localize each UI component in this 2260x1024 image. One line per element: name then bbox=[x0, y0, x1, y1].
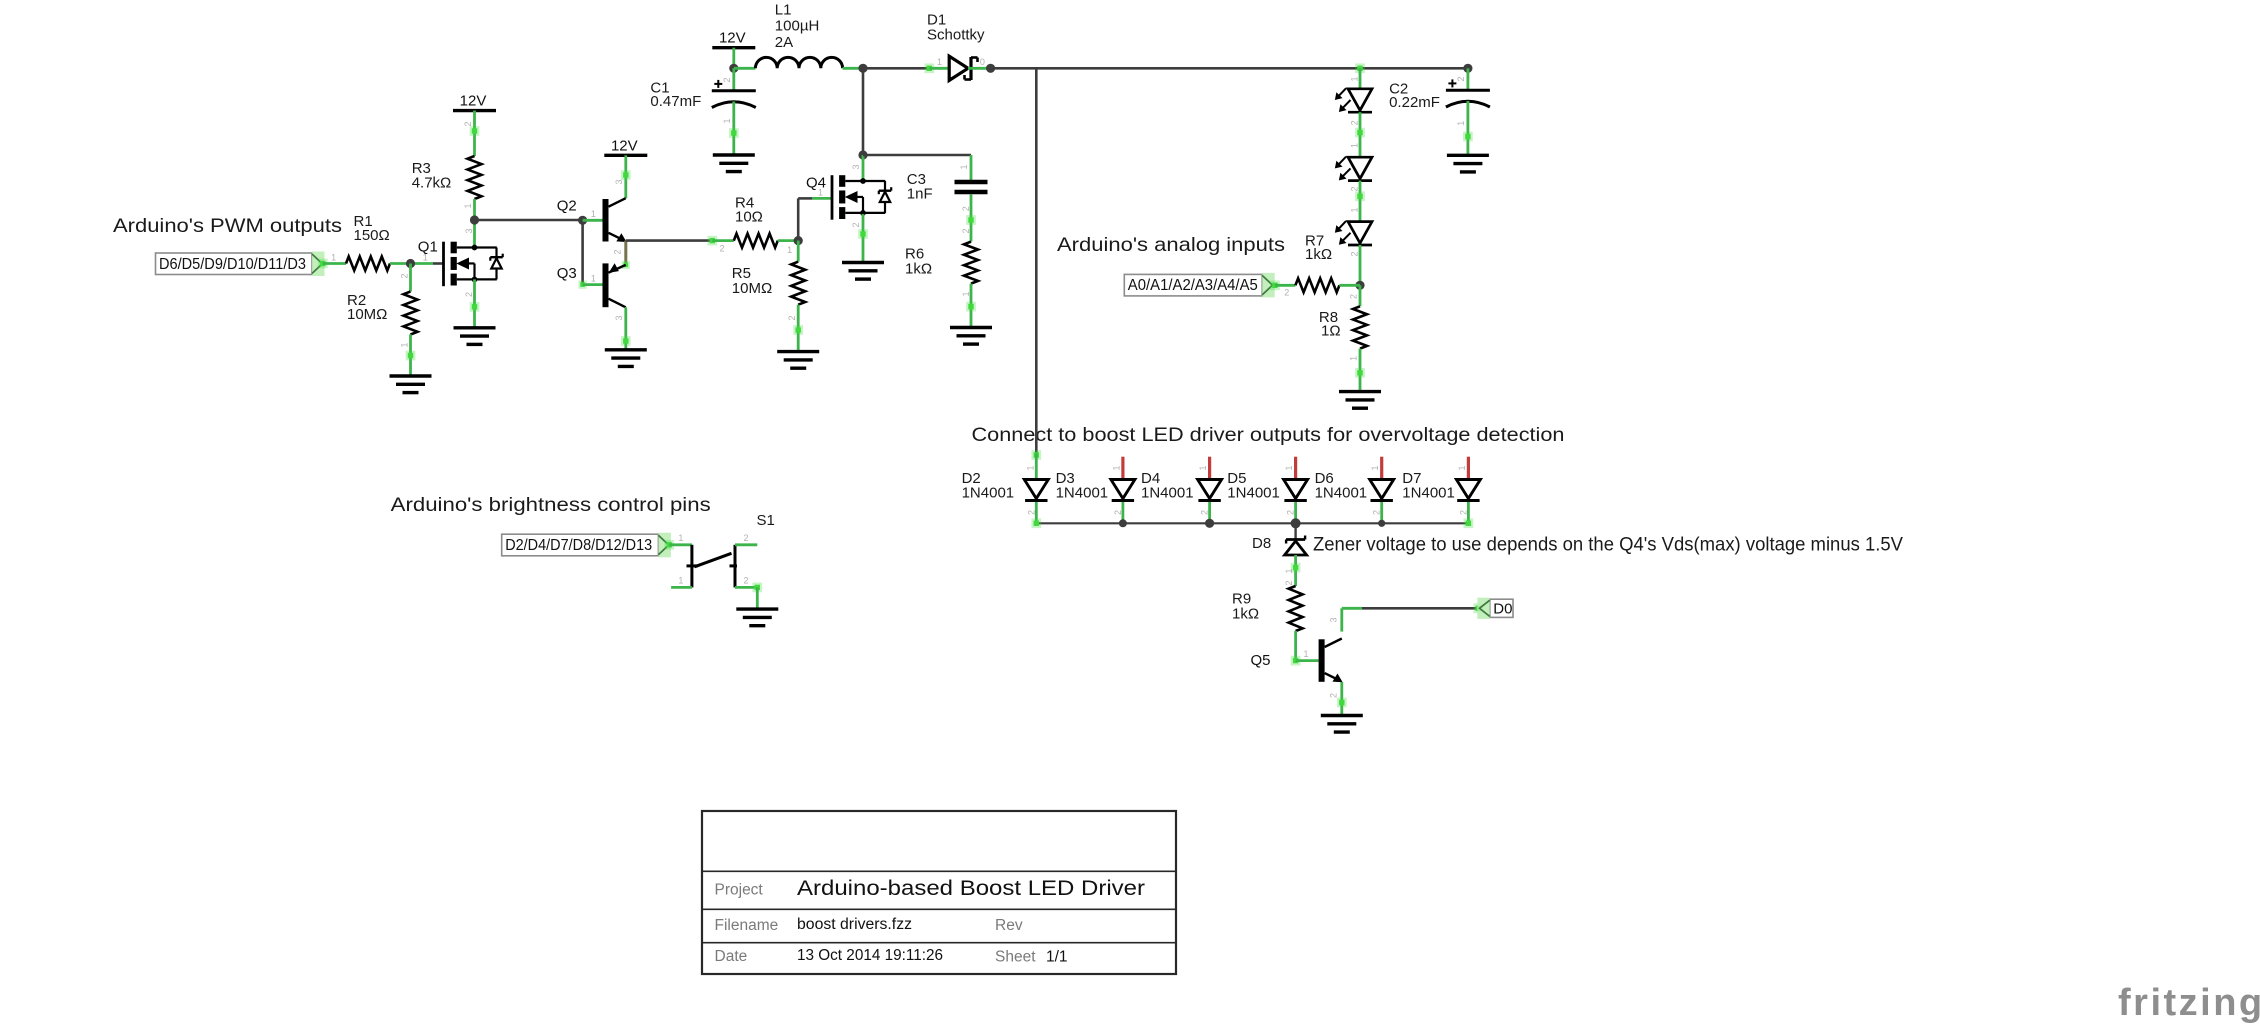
svg-text:12V: 12V bbox=[719, 30, 746, 47]
pin dot bus left corner bbox=[1031, 518, 1041, 528]
svg-text:fritzing: fritzing bbox=[2118, 982, 2260, 1024]
svg-text:Arduino's analog inputs: Arduino's analog inputs bbox=[1057, 234, 1285, 256]
stub unconnected D3 anode bbox=[1121, 457, 1124, 479]
svg-text:3: 3 bbox=[851, 164, 861, 169]
svg-text:2A: 2A bbox=[775, 34, 793, 51]
LED LED3 bbox=[1336, 221, 1373, 245]
svg-text:0.22mF: 0.22mF bbox=[1389, 94, 1440, 111]
svg-text:2: 2 bbox=[463, 121, 473, 126]
svg-text:2: 2 bbox=[1026, 510, 1036, 515]
wire R3 to drain node bbox=[473, 199, 476, 248]
pin dot LED1/LED2 bbox=[1355, 128, 1365, 138]
svg-text:1N4001: 1N4001 bbox=[1227, 485, 1280, 502]
power 12V rail main bbox=[712, 30, 755, 48]
wire base tie Q2-Q3 bbox=[581, 220, 584, 284]
transistor Q4 (n-MOSFET) bbox=[806, 175, 891, 220]
svg-text:1: 1 bbox=[1284, 465, 1294, 470]
svg-text:1: 1 bbox=[961, 291, 971, 296]
wire gate stub bbox=[433, 262, 444, 265]
node C1/L1/12V bbox=[729, 64, 738, 73]
svg-text:1kΩ: 1kΩ bbox=[1232, 606, 1259, 623]
wire D1 cathode lead bbox=[968, 67, 991, 70]
resistor R9 bbox=[1289, 586, 1303, 631]
wire 12V to R3 bbox=[473, 111, 476, 156]
pin dot emitter node bbox=[622, 261, 630, 269]
svg-text:2: 2 bbox=[1284, 288, 1289, 298]
svg-text:1: 1 bbox=[787, 245, 792, 255]
ground under Q3 bbox=[605, 350, 647, 367]
wire R7 to node bbox=[1339, 284, 1360, 287]
node D1 cathode bbox=[986, 64, 995, 73]
node Q4 drain/C3 bbox=[858, 150, 867, 159]
svg-text:1nF: 1nF bbox=[907, 186, 933, 203]
net label A0/A1/A2/A3/A4/A5 bbox=[1124, 273, 1274, 298]
pin dot bus right corner bbox=[1464, 518, 1474, 528]
wire D4 cathode to bus bbox=[1208, 502, 1211, 523]
pin dot LED chain top bbox=[1355, 63, 1365, 73]
transistor Q2 (NPN) bbox=[557, 198, 626, 242]
svg-text:Connect to boost LED driver ou: Connect to boost LED driver outputs for … bbox=[972, 424, 1565, 446]
resistor R1 bbox=[346, 257, 390, 271]
svg-text:1: 1 bbox=[1457, 465, 1467, 470]
LED LED2 bbox=[1336, 157, 1373, 181]
pin dot R8 bottom bbox=[1355, 368, 1365, 378]
svg-text:2: 2 bbox=[613, 249, 623, 254]
pin dot Q3 base bbox=[578, 280, 586, 288]
wire corner to Q5 base bbox=[1296, 659, 1319, 662]
wire bus to D8 bbox=[1294, 523, 1296, 539]
capacitor C1 bbox=[712, 80, 756, 108]
svg-text:2: 2 bbox=[961, 206, 971, 211]
pin dot LED2/LED3 bbox=[1355, 191, 1365, 201]
svg-text:2: 2 bbox=[743, 576, 748, 586]
transistor Q1 (n-MOSFET) bbox=[418, 239, 503, 287]
svg-text:3: 3 bbox=[1329, 617, 1339, 622]
wire R4 to junction bbox=[778, 239, 798, 242]
pin dot C2 bottom bbox=[1463, 132, 1473, 142]
svg-text:1N4001: 1N4001 bbox=[962, 485, 1015, 502]
svg-text:10MΩ: 10MΩ bbox=[732, 280, 772, 297]
wire R1 to Q1 gate bbox=[390, 262, 433, 265]
svg-text:D2/D4/D7/D8/D12/D13: D2/D4/D7/D8/D12/D13 bbox=[505, 537, 652, 554]
svg-text:13 Oct 2014 19:11:26: 13 Oct 2014 19:11:26 bbox=[797, 947, 943, 964]
svg-text:Project: Project bbox=[715, 882, 764, 899]
svg-text:2: 2 bbox=[1350, 251, 1360, 256]
wire C1 to ground bbox=[732, 102, 735, 156]
pin dot D8 anode bbox=[1291, 563, 1301, 573]
diode D4 (1N4001) bbox=[1198, 480, 1222, 501]
wire D7 cathode to bus bbox=[1467, 502, 1470, 523]
svg-text:1: 1 bbox=[463, 203, 473, 208]
node bus/D6 bbox=[1378, 520, 1385, 527]
wire collector lead bbox=[1342, 607, 1362, 610]
wire junction up to gate corner bbox=[797, 198, 800, 240]
resistor R5 bbox=[791, 262, 805, 305]
svg-text:2: 2 bbox=[1372, 510, 1382, 515]
net label D2/D4/D7/D8/D12/D13 bbox=[502, 533, 671, 558]
wire node to C1 bbox=[732, 68, 735, 91]
wire C3 top lead bbox=[970, 155, 973, 180]
wire Q4 source to ground bbox=[862, 214, 865, 263]
pin dot R9/Q5 corner bbox=[1291, 656, 1301, 666]
wire LED2 to LED3 bbox=[1359, 181, 1362, 222]
svg-text:4.7kΩ: 4.7kΩ bbox=[412, 175, 452, 192]
wire overvoltage bus bbox=[1036, 522, 1468, 524]
diode D6 (1N4001) bbox=[1370, 480, 1394, 501]
wire rail down to Q4 node bbox=[862, 68, 865, 155]
ground under Q1 bbox=[454, 328, 496, 345]
svg-text:Q5: Q5 bbox=[1251, 652, 1271, 669]
svg-text:2: 2 bbox=[961, 228, 971, 233]
svg-text:D6/D5/D9/D10/D11/D3: D6/D5/D9/D10/D11/D3 bbox=[159, 256, 306, 273]
svg-text:2: 2 bbox=[722, 77, 732, 82]
svg-text:Date: Date bbox=[715, 948, 748, 965]
wire gate corner horizontal bbox=[798, 197, 812, 200]
svg-text:1: 1 bbox=[1350, 76, 1360, 81]
wire junction to R2 bbox=[409, 264, 412, 292]
wire S1 to ground bbox=[756, 587, 759, 609]
svg-text:2: 2 bbox=[1284, 580, 1294, 585]
node gate/R1/R2 bbox=[406, 259, 415, 268]
svg-text:1N4001: 1N4001 bbox=[1402, 485, 1455, 502]
node R3/Q1 drain/Q2 base bbox=[470, 215, 479, 224]
wire S1 pin1 stub bbox=[671, 586, 692, 589]
wire 12V to Q2 collector bbox=[624, 155, 627, 198]
net label D6/D5/D9/D10/D11/D3 bbox=[156, 252, 325, 277]
pin dot D1 anode bbox=[924, 63, 934, 73]
wire S1 pin2 stub bbox=[735, 543, 757, 546]
svg-text:3: 3 bbox=[614, 315, 624, 320]
pin dot Q4 source bbox=[858, 229, 868, 239]
svg-text:2: 2 bbox=[1458, 510, 1468, 515]
svg-text:D8: D8 bbox=[1252, 535, 1271, 552]
node Q2 base bbox=[578, 216, 587, 225]
svg-text:L1: L1 bbox=[775, 2, 792, 19]
svg-text:D0: D0 bbox=[1493, 600, 1512, 617]
svg-text:Arduino-based Boost LED Driver: Arduino-based Boost LED Driver bbox=[797, 877, 1145, 900]
stub unconnected D7 anode bbox=[1467, 457, 1470, 479]
capacitor C2 bbox=[1446, 79, 1490, 107]
LED LED1 bbox=[1336, 88, 1373, 112]
wire Q5 emitter to ground bbox=[1340, 682, 1343, 716]
pin dot PWM label bbox=[318, 259, 328, 269]
svg-text:1: 1 bbox=[678, 576, 683, 586]
wire R4 left lead bbox=[712, 239, 734, 242]
svg-text:Filename: Filename bbox=[715, 917, 779, 934]
wire gate lead Q4 bbox=[812, 197, 832, 200]
svg-text:2: 2 bbox=[743, 533, 748, 543]
pin dot R3 top bbox=[470, 126, 480, 136]
node bus/D3 bbox=[1119, 519, 1127, 527]
resistor R2 bbox=[404, 292, 418, 335]
power 12V rail for Q2 bbox=[604, 137, 647, 155]
wire D6 cathode to bus bbox=[1380, 502, 1383, 523]
svg-text:2: 2 bbox=[464, 292, 474, 297]
wire node to R8 bbox=[1359, 285, 1362, 306]
svg-text:1: 1 bbox=[1303, 649, 1308, 659]
pin dot R4 left bbox=[707, 236, 717, 246]
svg-text:1N4001: 1N4001 bbox=[1315, 485, 1368, 502]
title block frame bbox=[702, 811, 1176, 974]
svg-text:12V: 12V bbox=[611, 137, 638, 154]
svg-text:1: 1 bbox=[1284, 568, 1294, 573]
wire R9 to Q5 base corner bbox=[1294, 631, 1297, 661]
svg-text:0: 0 bbox=[980, 57, 985, 67]
ground under R6 bbox=[950, 328, 992, 345]
wire L1 to node bbox=[843, 67, 863, 70]
wire C3 to R6 bbox=[970, 194, 973, 241]
node R4/R5/Q4 gate bbox=[794, 236, 803, 245]
wire R6 to ground bbox=[970, 284, 973, 328]
resistor R6 bbox=[964, 242, 978, 284]
svg-text:2: 2 bbox=[851, 222, 861, 227]
pin dot C1 bottom bbox=[729, 128, 739, 138]
svg-text:Sheet: Sheet bbox=[995, 949, 1036, 966]
svg-text:1: 1 bbox=[1025, 465, 1035, 470]
svg-text:Q3: Q3 bbox=[557, 265, 577, 282]
pin dot R6 bottom bbox=[966, 302, 976, 312]
stub unconnected D5 anode bbox=[1294, 457, 1297, 479]
wire node to D1 bbox=[863, 67, 929, 70]
svg-text:Rev: Rev bbox=[995, 917, 1023, 934]
wire Q1 source to ground bbox=[473, 279, 476, 327]
svg-text:150Ω: 150Ω bbox=[354, 227, 390, 244]
inductor L1 bbox=[755, 57, 842, 68]
wire drain node to Q2 base bbox=[475, 219, 583, 222]
wire D1 anode lead bbox=[929, 67, 949, 70]
svg-text:1/1: 1/1 bbox=[1046, 949, 1068, 966]
wire PWM label to R1 bbox=[323, 262, 346, 265]
svg-text:A0/A1/A2/A3/A4/A5: A0/A1/A2/A3/A4/A5 bbox=[1128, 277, 1258, 294]
ground under R8 bbox=[1339, 392, 1381, 409]
diode D1 (Schottky) bbox=[949, 56, 977, 80]
ground under R2 bbox=[390, 376, 432, 393]
wire R5 to ground bbox=[797, 305, 800, 352]
resistor R8 bbox=[1353, 306, 1367, 348]
svg-text:1: 1 bbox=[937, 57, 942, 67]
svg-text:12V: 12V bbox=[460, 93, 487, 110]
stub unconnected D4 anode bbox=[1208, 457, 1211, 479]
svg-text:Arduino's PWM outputs: Arduino's PWM outputs bbox=[113, 215, 342, 237]
wire D5 cathode to bus bbox=[1294, 502, 1297, 523]
svg-text:1: 1 bbox=[400, 342, 410, 347]
svg-text:1Ω: 1Ω bbox=[1321, 322, 1341, 339]
wire node to C3 bbox=[863, 154, 971, 157]
svg-text:2: 2 bbox=[1200, 510, 1210, 515]
svg-text:1N4001: 1N4001 bbox=[1056, 485, 1109, 502]
svg-text:1: 1 bbox=[1350, 207, 1360, 212]
resistor R3 bbox=[468, 156, 482, 199]
node R7/R8/LED bbox=[1355, 281, 1364, 290]
pin dot D0 label bbox=[1473, 603, 1483, 613]
wire R2 to ground bbox=[409, 335, 412, 377]
ground under R5 bbox=[777, 352, 819, 369]
svg-text:1: 1 bbox=[331, 253, 336, 263]
diode D2 (1N4001) bbox=[1024, 480, 1048, 501]
transistor Q5 (NPN) bbox=[1251, 639, 1342, 682]
wire to D2 bbox=[1035, 454, 1038, 480]
node L1/D1/Q4 bbox=[858, 64, 867, 73]
pin dot D2 top bbox=[1031, 450, 1041, 460]
svg-text:1kΩ: 1kΩ bbox=[1305, 246, 1332, 263]
node bus/D4 bbox=[1205, 519, 1214, 528]
switch S1 bbox=[687, 545, 738, 588]
wire to D0 label bbox=[1362, 607, 1478, 610]
power 12V rail for R3 bbox=[453, 93, 496, 111]
svg-text:2: 2 bbox=[1350, 120, 1360, 125]
wire rail down to diode bus bbox=[1035, 68, 1038, 453]
svg-text:1: 1 bbox=[678, 533, 683, 543]
svg-text:10Ω: 10Ω bbox=[735, 209, 763, 226]
pin dot S1 ground corner bbox=[752, 583, 762, 593]
svg-text:1: 1 bbox=[591, 273, 596, 283]
wire Q3 base lead bbox=[583, 283, 603, 286]
svg-text:Q4: Q4 bbox=[806, 175, 826, 192]
ground under S1 bbox=[736, 609, 778, 626]
svg-text:2: 2 bbox=[787, 315, 797, 320]
ground under Q4 bbox=[842, 263, 884, 280]
pin dot R5 bottom bbox=[793, 325, 803, 335]
wire D2 cathode to bus bbox=[1035, 502, 1038, 523]
wire Q2 base lead bbox=[583, 219, 603, 222]
stub unconnected D6 anode bbox=[1380, 457, 1383, 479]
wire C2 to ground bbox=[1467, 101, 1470, 155]
svg-text:2: 2 bbox=[1456, 76, 1466, 81]
wire LED1 top lead bbox=[1359, 68, 1362, 89]
pin dot R2 bottom bbox=[406, 351, 416, 361]
svg-text:2: 2 bbox=[1113, 510, 1123, 515]
svg-text:1: 1 bbox=[722, 118, 732, 123]
wire S1 pin2b bbox=[735, 586, 757, 589]
wire 12V to node bbox=[732, 48, 735, 69]
wire Q5 collector up bbox=[1340, 608, 1343, 631]
capacitor C3 bbox=[955, 182, 988, 192]
pin dot Q5 emitter bbox=[1337, 698, 1347, 708]
pin dot C3/R6 bbox=[966, 215, 976, 225]
svg-text:2: 2 bbox=[400, 273, 410, 278]
diode D3 (1N4001) bbox=[1111, 480, 1135, 501]
svg-text:Q2: Q2 bbox=[557, 198, 577, 215]
svg-text:2: 2 bbox=[1329, 693, 1339, 698]
wire analog label to R7 bbox=[1275, 284, 1296, 287]
wire LED1 to LED2 bbox=[1359, 112, 1362, 157]
pin dot brightness label bbox=[664, 540, 674, 550]
node rail/C2 bbox=[1463, 64, 1472, 73]
svg-text:1N4001: 1N4001 bbox=[1141, 485, 1194, 502]
svg-text:0.47mF: 0.47mF bbox=[650, 93, 701, 110]
svg-text:1: 1 bbox=[591, 209, 596, 219]
wire R8 to ground bbox=[1359, 349, 1362, 392]
wire Q2/Q3 emitter tie (overlap) bbox=[624, 241, 627, 265]
pin dot Q1 source bbox=[470, 302, 480, 312]
resistor R7 bbox=[1295, 278, 1339, 292]
wire label to S1 bbox=[669, 543, 692, 546]
svg-text:1: 1 bbox=[1198, 465, 1208, 470]
svg-text:Q1: Q1 bbox=[418, 239, 438, 256]
svg-text:10MΩ: 10MΩ bbox=[347, 306, 387, 323]
pin dot Q3 collector bbox=[621, 336, 631, 346]
svg-text:2: 2 bbox=[1350, 186, 1360, 191]
svg-text:3: 3 bbox=[614, 179, 624, 184]
wire top rail bbox=[991, 67, 1468, 70]
wire D8 to R9 bbox=[1294, 555, 1297, 586]
svg-text:2: 2 bbox=[1286, 510, 1296, 515]
svg-text:1: 1 bbox=[1111, 465, 1121, 470]
pin dot analog label bbox=[1270, 280, 1280, 290]
wire node to C2 bbox=[1467, 68, 1470, 90]
diode D5 (1N4001) bbox=[1284, 480, 1308, 501]
pin dot Q2 collector bbox=[621, 170, 631, 180]
svg-text:1: 1 bbox=[1370, 465, 1380, 470]
ground under Q5 bbox=[1321, 716, 1363, 733]
svg-text:boost drivers.fzz: boost drivers.fzz bbox=[797, 916, 912, 933]
svg-text:1: 1 bbox=[1456, 121, 1466, 126]
svg-text:S1: S1 bbox=[757, 512, 775, 529]
svg-text:1: 1 bbox=[1349, 356, 1359, 361]
transistor Q3 (PNP) bbox=[557, 263, 626, 307]
svg-text:100µH: 100µH bbox=[775, 18, 820, 35]
ground under C2 bbox=[1447, 155, 1489, 172]
svg-text:Zener voltage to use depends o: Zener voltage to use depends on the Q4's… bbox=[1313, 534, 1903, 556]
svg-text:2: 2 bbox=[1349, 294, 1359, 299]
wire node to L1 bbox=[734, 67, 756, 70]
ground under C1 bbox=[713, 155, 755, 172]
wire D3 cathode to bus bbox=[1122, 502, 1125, 523]
wire node to Q4 drain bbox=[862, 155, 865, 181]
svg-text:Arduino's brightness control p: Arduino's brightness control pins bbox=[391, 494, 711, 516]
node bus/D5/D8 bbox=[1291, 518, 1301, 528]
wire Q3 collector to ground bbox=[624, 307, 627, 350]
svg-text:1: 1 bbox=[1350, 143, 1360, 148]
net label D0 bbox=[1477, 598, 1513, 619]
svg-text:Schottky: Schottky bbox=[927, 27, 985, 44]
svg-text:1kΩ: 1kΩ bbox=[905, 260, 932, 277]
resistor R4 bbox=[734, 234, 778, 248]
svg-text:2: 2 bbox=[719, 244, 724, 254]
wire junction to R5 bbox=[797, 241, 800, 262]
svg-text:1: 1 bbox=[959, 164, 969, 169]
zener diode D8 bbox=[1285, 536, 1307, 556]
diode D7 (1N4001) bbox=[1456, 480, 1480, 501]
wire LED3 to node bbox=[1359, 245, 1362, 285]
wire emitters to R4 bbox=[626, 239, 713, 242]
svg-text:3: 3 bbox=[464, 228, 474, 233]
